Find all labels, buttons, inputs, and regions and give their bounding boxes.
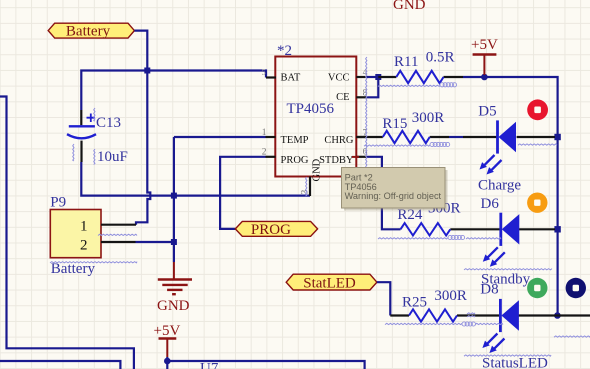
ground symbol GND [173, 262, 175, 280]
connector P9 [50, 210, 101, 258]
svg-text:GND: GND [393, 0, 426, 13]
svg-text:1: 1 [262, 128, 267, 138]
indicator navy [566, 278, 586, 298]
svg-text:GND: GND [157, 298, 190, 314]
svg-text:BAT: BAT [281, 72, 301, 83]
svg-text:*2: *2 [277, 43, 292, 59]
junction GND/ground [171, 193, 177, 199]
wire GND net horizontal [81, 162, 310, 196]
junction +5V [481, 74, 488, 81]
power +5V bottom [166, 339, 168, 358]
wire bottom-left inner [0, 361, 120, 369]
svg-text:R11: R11 [394, 54, 418, 70]
svg-text:TEMP: TEMP [281, 135, 309, 146]
port Battery [48, 23, 134, 38]
junction rail/D8 [554, 312, 561, 319]
tooltip warning [344, 170, 448, 211]
svg-text:CHRG: CHRG [324, 135, 354, 146]
LED D8 leads [518, 314, 590, 316]
LED D8 [499, 299, 502, 332]
resistor R24 [450, 228, 501, 230]
svg-text:5: 5 [262, 67, 266, 77]
wire TEMP [174, 136, 266, 138]
svg-text:StatLED: StatLED [303, 275, 356, 291]
svg-text:STDBY: STDBY [319, 155, 354, 166]
svg-text:300R: 300R [434, 288, 467, 304]
resistor R15 [356, 136, 449, 138]
svg-text:C13: C13 [96, 115, 121, 131]
junction GND/P9 pin2 [171, 239, 177, 245]
wire bottom +5V feed [167, 357, 364, 369]
svg-text:Battery: Battery [66, 23, 111, 39]
pin TEMP 1 [266, 136, 276, 138]
pin PROG 2 [266, 156, 276, 158]
svg-text:300R: 300R [412, 110, 445, 126]
svg-text:0.5R: 0.5R [426, 50, 455, 66]
LED D6 leads [518, 228, 556, 230]
svg-text:2: 2 [262, 148, 267, 158]
junction bottom +5V [164, 358, 171, 365]
LED D5 leads [463, 136, 555, 138]
wire Battery net: port to BAT pin and P9 pin1 [134, 31, 150, 225]
capacitor C13 [80, 110, 82, 125]
svg-text:D8: D8 [480, 282, 498, 298]
resistor R25 [390, 314, 500, 316]
wire STDBY to R24 [367, 157, 401, 230]
op-amp U2 TP4056 body [275, 57, 356, 177]
arrows D6 [488, 247, 498, 257]
wire CE to VCC node [367, 77, 378, 97]
svg-text:StatusLED: StatusLED [482, 356, 548, 369]
svg-text:U7: U7 [200, 361, 219, 369]
svg-text:Charge: Charge [478, 178, 521, 194]
svg-text:1: 1 [80, 219, 88, 235]
arrows D5 [484, 155, 494, 165]
svg-text:2: 2 [80, 238, 88, 254]
svg-text:R25: R25 [402, 295, 427, 311]
junction VCC node [375, 74, 381, 80]
svg-text:Battery: Battery [51, 261, 96, 277]
wire P9 pin2 to GND [136, 241, 174, 243]
port StatLED [286, 274, 377, 290]
svg-text:Warning: Off-grid object: Warning: Off-grid object [345, 191, 442, 201]
junction Battery/BAT [144, 68, 150, 74]
svg-text:PROG: PROG [281, 155, 309, 166]
indicator red (D5 color) [527, 99, 548, 120]
svg-text:R15: R15 [382, 116, 407, 132]
pin 2 of P9 [101, 241, 136, 243]
LED D6 [499, 213, 502, 246]
indicator orange (D6 color) [527, 193, 547, 213]
svg-text:PROG: PROG [251, 222, 291, 238]
off-grid marker STDBY [352, 156, 359, 158]
resistor R11 [378, 76, 463, 78]
pin CE 8 [356, 96, 367, 98]
svg-text:+5V: +5V [154, 323, 181, 339]
svg-text:D6: D6 [481, 196, 500, 212]
arrows D8 [487, 334, 497, 344]
svg-text:GND: GND [312, 158, 323, 181]
junction rail/D6 [554, 226, 560, 232]
wire BAT horizontal [81, 71, 266, 111]
wire R15 to D5 [449, 136, 463, 138]
wire PROG [220, 157, 265, 229]
LED D5 [496, 120, 499, 153]
power +5V top [483, 55, 485, 76]
svg-text:TP4056: TP4056 [287, 101, 335, 117]
wire bottom-left outer [0, 97, 134, 369]
pin VCC 4 [356, 76, 366, 78]
svg-text:VCC: VCC [328, 72, 350, 83]
wire StatLED to R25 [377, 282, 390, 315]
svg-text:P9: P9 [50, 194, 66, 210]
pin BAT 5 [266, 76, 276, 78]
wire GND vertical to symbol [173, 137, 175, 262]
indicator green (D8 color) [527, 278, 547, 298]
svg-text:+5V: +5V [471, 37, 498, 53]
wire R11 to +5V rail [463, 77, 558, 316]
pin 1 of P9 [101, 224, 136, 226]
pin GND 3 [309, 177, 311, 197]
pin STDBY 6 [356, 156, 366, 158]
warning squiggles [50, 57, 590, 356]
wire VCC pin to node [367, 76, 379, 78]
pin CHRG 7 [356, 136, 366, 138]
svg-text:D5: D5 [478, 104, 496, 120]
port PROG [235, 221, 317, 236]
svg-text:CE: CE [336, 92, 349, 103]
junction rail/D5 [554, 134, 560, 140]
svg-text:10uF: 10uF [97, 149, 128, 165]
